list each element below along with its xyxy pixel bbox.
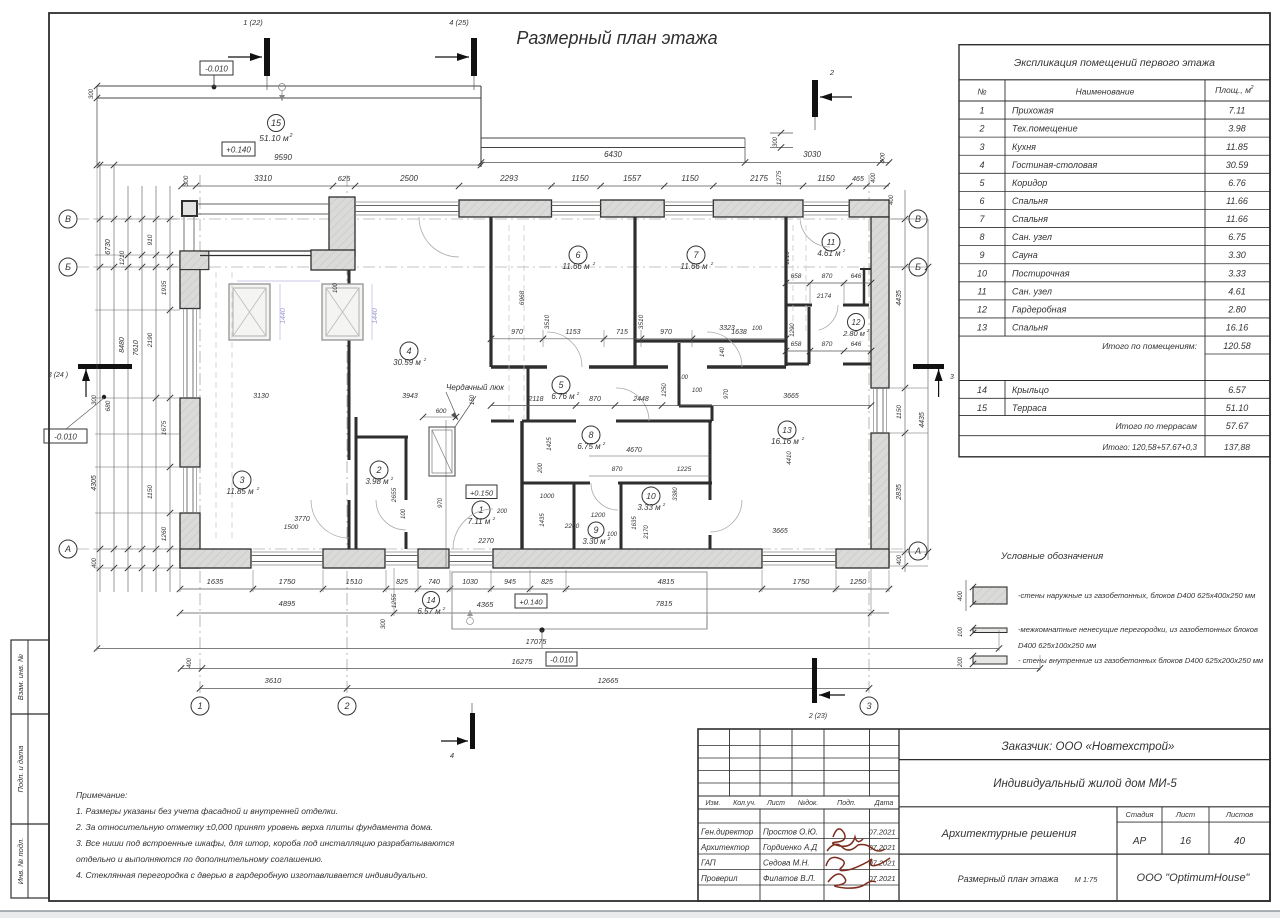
partition x574 sauna west xyxy=(573,483,576,549)
bottom extension lines xyxy=(179,570,181,592)
svg-text:2: 2 xyxy=(390,476,394,481)
svg-text:11.85: 11.85 xyxy=(1226,142,1249,152)
svg-text:9590: 9590 xyxy=(274,153,292,162)
svg-text:715: 715 xyxy=(616,329,628,336)
svg-text:10: 10 xyxy=(977,268,987,278)
axis Б circle left xyxy=(59,258,77,276)
section marker 4 bottom xyxy=(470,713,475,749)
svg-text:3665: 3665 xyxy=(783,393,799,400)
svg-text:1250: 1250 xyxy=(662,383,668,397)
svg-text:2: 2 xyxy=(842,248,846,253)
svg-text:2: 2 xyxy=(978,124,984,134)
svg-text:Гостиная-столовая: Гостиная-столовая xyxy=(1012,160,1097,170)
svg-text:+0.140: +0.140 xyxy=(226,146,251,155)
svg-text:Седова М.Н.: Седова М.Н. xyxy=(763,859,810,868)
axis line А horizontal xyxy=(77,548,909,550)
svg-text:Подп.: Подп. xyxy=(837,799,856,807)
svg-text:А: А xyxy=(914,546,921,556)
svg-text:1150: 1150 xyxy=(681,174,699,183)
svg-text:4815: 4815 xyxy=(658,577,676,586)
svg-text:2270: 2270 xyxy=(477,538,494,545)
elevation mark -0.010 bottom xyxy=(546,652,577,666)
svg-text:-0.010: -0.010 xyxy=(550,656,573,665)
svg-text:7.11: 7.11 xyxy=(1229,106,1246,116)
svg-text:120.58: 120.58 xyxy=(1223,341,1251,351)
svg-text:3: 3 xyxy=(239,475,244,485)
step wall below corner xyxy=(311,250,355,270)
svg-text:200: 200 xyxy=(496,509,508,515)
svg-text:200: 200 xyxy=(538,462,544,474)
svg-text:7.11 м: 7.11 м xyxy=(468,517,491,526)
svg-text:Крыльцо: Крыльцо xyxy=(1012,385,1049,395)
rooms 9-10 top wall y483 xyxy=(522,482,590,485)
svg-text:3770: 3770 xyxy=(294,516,310,523)
svg-text:400: 400 xyxy=(871,172,877,183)
svg-text:57.67: 57.67 xyxy=(1226,421,1250,431)
svg-text:2170: 2170 xyxy=(644,525,650,540)
svg-text:Филатов В.Л.: Филатов В.Л. xyxy=(763,874,815,883)
svg-text:Площ., м: Площ., м xyxy=(1215,85,1251,95)
svg-text:Подп. и дата: Подп. и дата xyxy=(16,746,25,793)
small pier top-left xyxy=(182,201,197,216)
axis А circle right xyxy=(909,542,927,560)
bottom exterior wall segments xyxy=(180,549,251,568)
svg-text:465: 465 xyxy=(852,176,864,183)
svg-text:Гардеробная: Гардеробная xyxy=(1012,304,1067,314)
room 4 label xyxy=(400,342,418,360)
svg-text:7610: 7610 xyxy=(133,340,140,356)
svg-text:658: 658 xyxy=(791,341,802,348)
elevation +0.150 xyxy=(466,485,497,499)
legend interior wall symbol xyxy=(973,656,1007,664)
svg-text:Гордиенко А.Д: Гордиенко А.Д xyxy=(763,843,818,852)
kitchen door arc xyxy=(311,500,349,538)
svg-text:11.66 м: 11.66 м xyxy=(680,262,708,271)
svg-text:2: 2 xyxy=(829,68,835,77)
svg-text:2500: 2500 xyxy=(399,174,418,183)
svg-text:12665: 12665 xyxy=(598,676,620,685)
partition living/bedroom6 x491 xyxy=(489,217,492,367)
window symbol kitchen 2 xyxy=(322,284,363,340)
signature scribbles xyxy=(833,829,863,846)
svg-text:Сауна: Сауна xyxy=(1012,250,1038,260)
svg-text:970: 970 xyxy=(511,329,523,336)
svg-text:+0.140: +0.140 xyxy=(519,598,543,607)
svg-text:100: 100 xyxy=(401,508,407,519)
svg-text:16275: 16275 xyxy=(512,657,534,666)
bottom dimension row 4 16275 xyxy=(181,667,1040,669)
svg-text:- стены внутренние из газобето: - стены внутренние из газобетонных блоко… xyxy=(1018,656,1264,665)
svg-text:Изм.: Изм. xyxy=(706,800,721,807)
svg-text:Кухня: Кухня xyxy=(1012,142,1036,152)
svg-text:870: 870 xyxy=(822,341,833,348)
room 2 top wall xyxy=(356,436,408,439)
svg-text:4: 4 xyxy=(979,160,984,170)
svg-text:Архитектор: Архитектор xyxy=(700,843,750,852)
room 12 west wall xyxy=(808,307,811,364)
svg-text:D400 625х100х250 мм: D400 625х100х250 мм xyxy=(1018,641,1097,650)
partition kitchen/living x349 xyxy=(348,270,351,460)
svg-text:Итого по помещениям:: Итого по помещениям: xyxy=(1102,341,1197,351)
svg-text:1255: 1255 xyxy=(391,593,398,608)
svg-text:9: 9 xyxy=(593,525,598,535)
svg-text:6.57: 6.57 xyxy=(1228,385,1247,395)
section marker 2 (23) bottom right xyxy=(812,658,817,703)
table row 12 Гардеробная xyxy=(959,317,1270,319)
svg-text:100: 100 xyxy=(752,326,763,332)
svg-text:1150: 1150 xyxy=(817,174,835,183)
room 10 label xyxy=(642,487,660,505)
svg-text:13: 13 xyxy=(977,323,987,333)
title block: Архитектурные решения xyxy=(899,853,1270,855)
left extension lines xyxy=(95,218,180,220)
title block frame xyxy=(698,729,1270,901)
svg-text:140: 140 xyxy=(720,346,726,357)
svg-text:1935: 1935 xyxy=(161,280,168,295)
svg-text:14: 14 xyxy=(977,385,987,395)
svg-text:400: 400 xyxy=(889,194,895,205)
svg-text:2: 2 xyxy=(866,328,870,333)
svg-text:2: 2 xyxy=(289,133,293,139)
svg-text:2: 2 xyxy=(343,701,349,711)
svg-text:300: 300 xyxy=(89,88,95,99)
svg-text:6430: 6430 xyxy=(604,150,622,159)
svg-text:3: 3 xyxy=(950,374,954,381)
svg-text:3.33: 3.33 xyxy=(1228,268,1246,278)
bottom wall windows/door gaps xyxy=(251,555,323,557)
right dimension chains xyxy=(904,190,906,572)
svg-text:825: 825 xyxy=(396,579,408,586)
svg-text:Лист: Лист xyxy=(766,800,785,807)
svg-text:8: 8 xyxy=(979,232,984,242)
elevation +0.140 bottom xyxy=(515,594,547,608)
svg-text:15: 15 xyxy=(977,403,988,413)
title block left grid xyxy=(729,729,731,796)
svg-text:Размерный план этажа: Размерный план этажа xyxy=(516,28,717,48)
svg-text:Сан. узел: Сан. узел xyxy=(1012,286,1052,296)
svg-text:Прихожая: Прихожая xyxy=(1012,106,1054,116)
svg-text:870: 870 xyxy=(822,273,833,280)
corridor south wall xyxy=(491,420,514,423)
dimension 9590 terrace xyxy=(97,164,481,166)
svg-text:Листов: Листов xyxy=(1225,810,1253,819)
bottom dimension row 5 xyxy=(200,687,869,689)
right exterior wall segments xyxy=(871,217,889,388)
svg-text:1250: 1250 xyxy=(850,577,868,586)
svg-text:3665: 3665 xyxy=(772,528,788,535)
svg-text:Сан. узел: Сан. узел xyxy=(1012,232,1052,242)
svg-text:2: 2 xyxy=(602,441,606,446)
table row 10 Постирочная xyxy=(959,281,1270,283)
svg-text:1 (22): 1 (22) xyxy=(243,18,263,27)
porch 14 outline xyxy=(452,572,707,629)
axis line B circle left xyxy=(59,210,77,228)
svg-text:3610: 3610 xyxy=(265,676,283,685)
svg-text:3: 3 xyxy=(979,142,984,152)
elevation mark -0.010 left xyxy=(44,429,87,443)
svg-text:3.33 м: 3.33 м xyxy=(637,503,661,512)
svg-text:11.66 м: 11.66 м xyxy=(562,262,590,271)
axis Б circle right xyxy=(909,258,927,276)
svg-text:300: 300 xyxy=(381,618,387,629)
room8 west wall x522 xyxy=(520,421,523,549)
svg-text:-стены наружные из газобетонны: -стены наружные из газобетонных, блоков … xyxy=(1018,591,1256,600)
svg-text:400: 400 xyxy=(958,590,964,601)
svg-text:1150: 1150 xyxy=(147,485,154,499)
svg-text:Простов О.Ю.: Простов О.Ю. xyxy=(763,828,818,837)
svg-text:Итого по террасам: Итого по террасам xyxy=(1115,421,1197,431)
svg-text:1557: 1557 xyxy=(623,174,641,183)
svg-text:300: 300 xyxy=(183,175,190,186)
dimension 6430 / 3030 porch xyxy=(481,162,889,164)
terrace door swing symbol xyxy=(279,84,286,91)
svg-text:100: 100 xyxy=(678,375,689,381)
door arcs misc xyxy=(419,217,459,257)
axis 3 circle xyxy=(860,697,878,715)
table row 5 Коридор xyxy=(959,190,1270,192)
corridor dim row y405 xyxy=(491,405,871,407)
bottom dimension row 1 xyxy=(180,588,889,590)
svg-text:870: 870 xyxy=(612,466,623,473)
svg-text:3943: 3943 xyxy=(402,393,418,400)
svg-text:2: 2 xyxy=(375,465,381,475)
svg-text:30.59 м: 30.59 м xyxy=(393,358,421,367)
svg-text:2175: 2175 xyxy=(749,174,768,183)
svg-text:2.80 м: 2.80 м xyxy=(842,329,865,338)
svg-text:9: 9 xyxy=(979,250,984,260)
svg-text:Условные обозначения: Условные обозначения xyxy=(1000,551,1103,562)
sauna door arc xyxy=(591,483,618,510)
svg-text:4365: 4365 xyxy=(477,600,495,609)
svg-text:2: 2 xyxy=(442,606,446,611)
svg-text:1: 1 xyxy=(197,701,202,711)
bottom dimension row 2 xyxy=(180,612,889,614)
attic hatch xyxy=(429,427,455,476)
title block right: customer xyxy=(898,729,900,901)
svg-text:1153: 1153 xyxy=(565,329,580,336)
svg-text:740: 740 xyxy=(428,579,440,586)
table row 14 Крыльцо xyxy=(959,380,1270,382)
svg-text:1440: 1440 xyxy=(280,308,287,324)
svg-text:ГАП: ГАП xyxy=(701,859,716,868)
axis line 3 vertical xyxy=(868,175,870,697)
room 5 label xyxy=(552,376,570,394)
table row 4 Гостиная-столовая xyxy=(959,172,1270,174)
partition bedroom7 east x786 xyxy=(784,217,787,366)
legend exterior wall symbol xyxy=(973,587,1007,604)
svg-text:10: 10 xyxy=(646,491,656,501)
svg-text:2: 2 xyxy=(576,391,580,396)
svg-text:6.75: 6.75 xyxy=(1228,232,1247,242)
svg-text:1440: 1440 xyxy=(372,308,379,324)
svg-text:11.66: 11.66 xyxy=(1226,214,1248,224)
partition room1/room2 x406 xyxy=(405,437,408,500)
left margin boxes (Взам. инв. №, Подп. и дата, Инв. № подл.) xyxy=(11,640,49,898)
svg-text:658: 658 xyxy=(791,273,802,280)
svg-text:3. Все ниши под встроенные шка: 3. Все ниши под встроенные шкафы, для шт… xyxy=(76,838,455,848)
svg-text:А: А xyxy=(64,544,71,554)
bedroom6 door arc xyxy=(547,332,582,367)
svg-text:1635: 1635 xyxy=(207,577,225,586)
svg-text:2655: 2655 xyxy=(391,487,398,503)
svg-text:945: 945 xyxy=(504,579,516,586)
svg-text:2: 2 xyxy=(710,261,714,266)
table row 7 Спальня xyxy=(959,227,1270,229)
svg-text:4435: 4435 xyxy=(919,412,926,428)
svg-text:6.76: 6.76 xyxy=(1228,178,1246,188)
room 11 door arc xyxy=(819,305,838,330)
svg-text:625: 625 xyxy=(338,174,351,183)
svg-text:4 (25): 4 (25) xyxy=(449,18,469,27)
svg-text:970: 970 xyxy=(660,329,672,336)
axis 1 circle xyxy=(191,697,209,715)
svg-text:Размерный план этажа: Размерный план этажа xyxy=(958,874,1059,884)
svg-text:4: 4 xyxy=(406,346,411,356)
svg-text:2835: 2835 xyxy=(896,484,903,501)
svg-text:Дата: Дата xyxy=(874,800,894,807)
left exterior wall segments xyxy=(180,251,200,309)
porch edge lines xyxy=(481,137,745,139)
right wall window xyxy=(876,388,878,433)
svg-text:680: 680 xyxy=(105,400,112,411)
svg-text:4410: 4410 xyxy=(787,451,793,465)
room13 door arc xyxy=(710,500,742,532)
svg-text:646: 646 xyxy=(851,273,862,280)
svg-text:Б: Б xyxy=(65,262,71,272)
svg-text:4435: 4435 xyxy=(896,290,903,306)
table row 3 Кухня xyxy=(959,154,1270,156)
svg-text:2200: 2200 xyxy=(564,523,580,530)
svg-text:+0.150: +0.150 xyxy=(470,489,494,498)
svg-text:3: 3 xyxy=(866,701,871,711)
svg-text:Взам. инв. №: Взам. инв. № xyxy=(16,654,25,700)
svg-text:1150: 1150 xyxy=(896,405,903,419)
stage sheet cells xyxy=(1117,821,1270,823)
svg-text:2448: 2448 xyxy=(632,396,649,403)
svg-text:137,88: 137,88 xyxy=(1224,442,1250,452)
svg-text:40: 40 xyxy=(1234,836,1246,847)
niche wall x712 xyxy=(711,406,714,421)
svg-text:11: 11 xyxy=(977,286,986,296)
svg-text:Кол.уч.: Кол.уч. xyxy=(733,800,756,807)
table column lines xyxy=(1004,80,1006,336)
partition bedroom6/7 x635 xyxy=(633,217,636,367)
svg-text:Терраса: Терраса xyxy=(1012,403,1047,413)
room schedule table frame xyxy=(959,45,1270,457)
svg-text:2118: 2118 xyxy=(527,396,543,403)
room 1 label xyxy=(472,501,490,519)
dashed lines bedroom7 xyxy=(792,225,794,335)
window symbol kitchen 1 xyxy=(229,284,270,340)
svg-text:Заказчик: ООО «Новтехстрой»: Заказчик: ООО «Новтехстрой» xyxy=(1002,741,1175,753)
room 3 label xyxy=(233,471,251,489)
svg-text:51.10 м: 51.10 м xyxy=(259,133,289,143)
svg-text:1000: 1000 xyxy=(540,493,555,500)
svg-text:2293: 2293 xyxy=(499,174,518,183)
svg-text:отдельно и выполняются по допо: отдельно и выполняются по дополнительном… xyxy=(76,854,323,864)
svg-text:Инв. № подл.: Инв. № подл. xyxy=(16,838,25,885)
room 2 label xyxy=(370,461,388,479)
svg-text:3.98 м: 3.98 м xyxy=(365,477,389,486)
axis 2 circle xyxy=(338,697,356,715)
thin glazing to terrace top-left xyxy=(197,203,329,205)
dashed furniture lines kitchen xyxy=(215,272,217,540)
room 7 label xyxy=(687,246,705,264)
svg-text:3380: 3380 xyxy=(673,487,679,501)
table header xyxy=(959,79,1270,81)
svg-text:Наименование: Наименование xyxy=(1076,87,1135,97)
svg-text:11: 11 xyxy=(827,237,836,247)
room 2 door arc xyxy=(376,500,406,530)
svg-text:Ген.директор: Ген.директор xyxy=(701,828,754,837)
svg-text:1675: 1675 xyxy=(161,420,168,435)
svg-text:В: В xyxy=(65,214,71,224)
svg-text:200: 200 xyxy=(958,656,964,668)
room 15 terrace label xyxy=(268,115,285,132)
svg-text:51.10: 51.10 xyxy=(1226,403,1249,413)
elevation mark -0.010 top xyxy=(200,61,233,75)
svg-text:М 1:75: М 1:75 xyxy=(1075,875,1099,884)
room 11 south wall xyxy=(786,304,812,307)
svg-text:Индивидуальный жилой дом МИ-5: Индивидуальный жилой дом МИ-5 xyxy=(993,778,1177,790)
svg-text:№док.: №док. xyxy=(798,799,819,807)
svg-text:1510: 1510 xyxy=(346,577,364,586)
svg-text:646: 646 xyxy=(851,341,862,348)
svg-text:2: 2 xyxy=(256,486,260,491)
svg-text:Спальня: Спальня xyxy=(1012,214,1048,224)
svg-text:2: 2 xyxy=(492,516,496,521)
table row 6 Спальня xyxy=(959,208,1270,210)
room 13 label xyxy=(778,421,796,439)
svg-text:Архитектурные решения: Архитектурные решения xyxy=(941,828,1077,840)
table row 1 Прихожая xyxy=(959,118,1270,120)
axis line 1 vertical xyxy=(199,175,201,697)
svg-text:3323: 3323 xyxy=(719,325,735,332)
dimension 300 terrace left xyxy=(94,83,100,89)
niche wall room 11 xyxy=(863,268,866,305)
bottom dimension row 3 17075 xyxy=(97,648,999,650)
room13 west wall x710 xyxy=(709,421,712,500)
svg-text:6: 6 xyxy=(979,196,984,206)
interior dim row rooms 6-7 y338 xyxy=(491,338,786,340)
room 11-12 dims xyxy=(786,282,871,284)
axis line Б horizontal xyxy=(77,266,909,268)
svg-text:Постирочная: Постирочная xyxy=(1012,268,1070,278)
dim 3323 row xyxy=(700,332,786,334)
svg-text:8480: 8480 xyxy=(119,337,126,353)
svg-text:2 (23): 2 (23) xyxy=(808,713,827,720)
svg-text:4895: 4895 xyxy=(279,599,297,608)
svg-text:2: 2 xyxy=(662,502,666,507)
terrace outline xyxy=(97,85,481,87)
svg-text:12: 12 xyxy=(977,304,987,314)
svg-text:6.57 м: 6.57 м xyxy=(417,607,441,616)
room 12 south wall xyxy=(786,363,809,366)
svg-text:11.66: 11.66 xyxy=(1226,196,1248,206)
axis line B horizontal xyxy=(77,218,909,220)
svg-text:4670: 4670 xyxy=(626,447,642,454)
bedroom7 door arc xyxy=(707,332,742,367)
left dimension chains xyxy=(99,165,101,592)
svg-text:1290: 1290 xyxy=(790,323,796,337)
svg-text:1150: 1150 xyxy=(571,174,589,183)
svg-text:6.75 м: 6.75 м xyxy=(577,442,601,451)
page bottom gray strip xyxy=(0,911,1280,918)
svg-text:1210: 1210 xyxy=(785,251,791,265)
svg-text:-межкомнатные ненесущие перего: -межкомнатные ненесущие перегородки, из … xyxy=(1018,625,1258,634)
room 14 label porch xyxy=(423,592,440,609)
niche wall y406 xyxy=(679,405,712,408)
